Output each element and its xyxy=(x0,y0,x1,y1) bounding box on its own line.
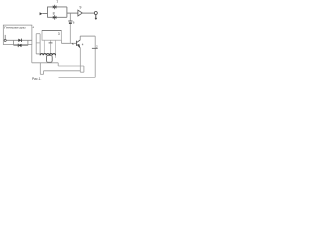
diode pair VD 7 xyxy=(53,5,55,8)
wire junction drop to capacitor 6 xyxy=(69,13,71,21)
svg-text:7: 7 xyxy=(56,0,58,4)
capacitor 6 bottom plate xyxy=(69,22,72,24)
box 3 pin 3 stem xyxy=(50,43,52,55)
wire top right horizontal xyxy=(80,35,95,37)
capacitor 2 plate xyxy=(92,47,98,50)
coil base wire xyxy=(36,53,40,55)
wire collector up xyxy=(79,36,81,40)
generator output circle xyxy=(4,39,6,41)
diode pair VD 8 xyxy=(53,16,55,19)
wire line C xyxy=(14,44,28,46)
wire drop 2 xyxy=(39,34,41,56)
wire amp to output xyxy=(82,12,94,14)
wire right vertical xyxy=(94,36,96,77)
wire V1 vertical xyxy=(35,34,37,54)
limiter loop bottom wire xyxy=(47,16,67,18)
wire generator corner drop xyxy=(31,45,33,63)
generators box xyxy=(3,25,32,44)
wire emitter down xyxy=(79,48,81,72)
svg-text:3: 3 xyxy=(58,32,60,36)
wire capacitor down xyxy=(69,24,71,43)
wire box3 right edge drop xyxy=(60,40,62,43)
wire limiter to amp xyxy=(67,12,78,14)
op-amp triangle 9 xyxy=(78,10,82,16)
transistor collector xyxy=(77,40,80,42)
output terminal circle xyxy=(94,12,97,15)
svg-text:+: + xyxy=(32,26,34,30)
inductor coil bumps xyxy=(40,54,55,56)
box 3 pin 2 xyxy=(55,40,57,58)
wire mid segment xyxy=(58,65,84,67)
wire emitter bottom jog xyxy=(80,71,84,73)
limiter loop left wire xyxy=(47,7,49,17)
svg-text:Рис.1.: Рис.1. xyxy=(32,77,41,81)
wire drop U left xyxy=(39,63,41,75)
input signal arrow xyxy=(40,12,43,15)
transistor emitter with arrow xyxy=(77,45,80,48)
wire U right xyxy=(43,71,45,75)
diode D1 xyxy=(18,39,21,42)
box 3 pin 3 with capacitor plate xyxy=(50,40,52,42)
diode D2 xyxy=(19,44,22,47)
svg-text:8: 8 xyxy=(53,12,55,16)
generator output stub xyxy=(4,35,6,40)
box 3 pin 1 xyxy=(43,40,45,54)
wire bottom rail xyxy=(59,76,96,78)
wire jog hook xyxy=(83,66,85,72)
wire rise line C to line A xyxy=(27,40,29,45)
svg-text:Генераторы: Генераторы xyxy=(4,25,26,29)
wire U bottom xyxy=(40,73,43,75)
output plug arrow xyxy=(95,18,98,20)
wire step down xyxy=(57,63,59,66)
wire rail 1 xyxy=(32,62,58,64)
connector bar xyxy=(36,42,40,44)
box 3 xyxy=(42,30,61,40)
wire drop to line C xyxy=(13,40,15,45)
wire line A xyxy=(6,39,32,41)
capacitor 6 top plate xyxy=(68,20,72,23)
transformer core loop xyxy=(47,55,53,62)
limiter loop right wire xyxy=(66,7,68,17)
output plug stem xyxy=(95,15,97,19)
transistor base bar xyxy=(75,41,78,46)
limiter loop top wire xyxy=(47,6,67,8)
box 3 top edge dark xyxy=(42,29,61,31)
wire to transistor base xyxy=(61,42,76,44)
wire input to limiter xyxy=(42,13,47,15)
svg-text:9: 9 xyxy=(80,6,82,10)
wire rail 2 xyxy=(44,70,81,72)
wire line B xyxy=(36,33,40,35)
